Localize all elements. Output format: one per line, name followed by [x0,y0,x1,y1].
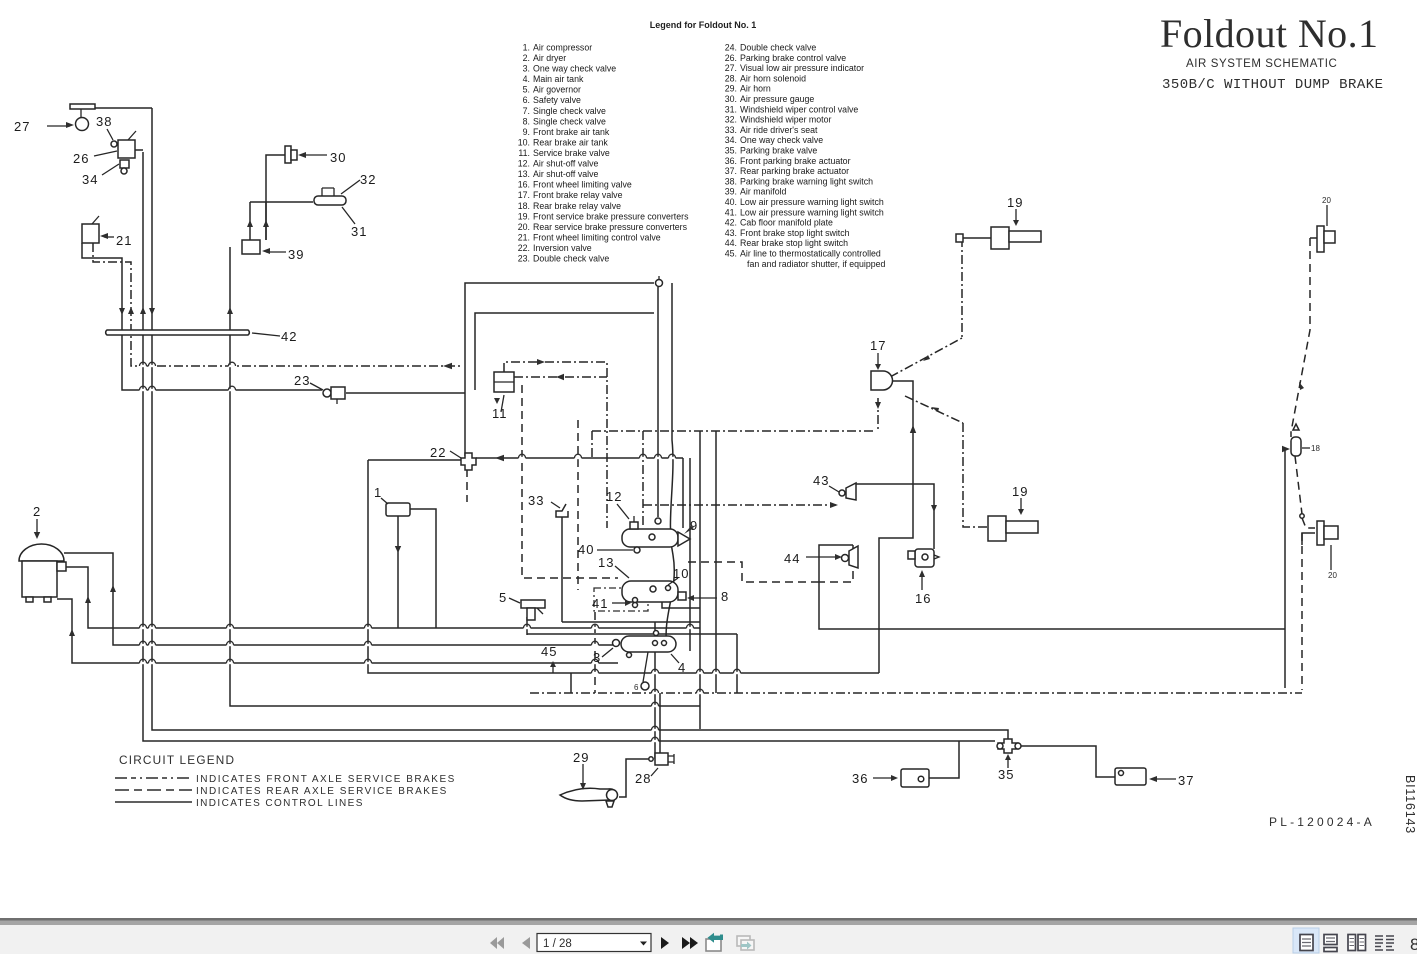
wire top rectangle lower run [475,313,654,390]
wire y484 from switch 43 to limiting valve 16 [856,484,934,549]
junction dot [1300,514,1304,518]
wire top rectangle upper run [465,283,654,456]
svg-text:3: 3 [593,650,601,665]
svg-text:30.: 30. [725,94,737,104]
dashed box around switch 41 [594,588,648,611]
svg-text:42.: 42. [725,218,737,228]
svg-text:34.: 34. [725,135,737,145]
svg-text:Rear brake stop light switch: Rear brake stop light switch [740,238,848,248]
component 29 air horn [560,788,616,801]
wire bus L8 from valve 26 riser down and right to parking brake valve [143,152,995,741]
dash-dot front axle line y431 [592,430,876,432]
legend sample line control [115,801,192,803]
dashed riser x522 and link to rear tank [522,385,618,578]
component 36 front parking brake actuator [901,769,929,787]
svg-text:36: 36 [852,771,868,786]
svg-text:26.: 26. [725,53,737,63]
svg-text:20.: 20. [518,222,530,232]
svg-text:Low air pressure warning light: Low air pressure warning light switch [740,207,884,217]
svg-text:Air line to thermostatically c: Air line to thermostatically controlled [740,249,881,259]
svg-text:31.: 31. [725,104,737,114]
svg-text:Air ride driver's seat: Air ride driver's seat [740,125,818,135]
svg-text:Front service brake pressure c: Front service brake pressure converters [533,211,689,221]
svg-text:fan and radiator shutter, if e: fan and radiator shutter, if equipped [747,259,886,269]
wire stub from top valve down [657,287,659,517]
svg-text:33.: 33. [725,125,737,135]
wire converter 20 upper stub [1310,237,1317,239]
wire drop into main air tank [654,622,656,637]
svg-text:Front brake air tank: Front brake air tank [533,127,610,137]
legend sample line rear axle [115,789,192,791]
svg-text:Air manifold: Air manifold [740,187,787,197]
svg-text:INDICATES CONTROL LINES: INDICATES CONTROL LINES [196,798,364,809]
svg-text:7.: 7. [523,106,530,116]
svg-text:22.: 22. [518,243,530,253]
svg-text:30: 30 [330,150,346,165]
svg-text:Parking brake control valve: Parking brake control valve [740,53,846,63]
svg-text:10.: 10. [518,137,530,147]
dash-dot drop x592 [591,431,593,458]
svg-text:23.: 23. [518,254,530,264]
svg-text:1.: 1. [523,43,530,53]
svg-text:Air governor: Air governor [533,85,581,95]
wire inversion valve left feed [368,459,461,461]
wire horn to solenoid [619,759,651,797]
svg-text:16: 16 [915,591,931,606]
component 23 double check valve [323,389,331,397]
svg-text:6.: 6. [523,95,530,105]
svg-text:9.: 9. [523,127,530,137]
svg-text:12: 12 [606,489,622,504]
svg-text:Legend for Foldout No. 1: Legend for Foldout No. 1 [650,20,757,30]
svg-text:PL-120024-A: PL-120024-A [1269,815,1375,829]
svg-text:39.: 39. [725,187,737,197]
top small valve on rectangle [656,280,663,287]
wire rear relay riser x1285 [1284,450,1286,688]
svg-text:33: 33 [528,493,544,508]
svg-text:Single check valve: Single check valve [533,106,606,116]
wire loop right of tanks [819,582,1285,629]
svg-text:Air dryer: Air dryer [533,53,566,63]
wire bus L1 control line from air dryer to right side [66,567,700,628]
wire bus L7 from valve 27 riser down and right to parking brake valve [152,108,1008,740]
svg-text:18.: 18. [518,201,530,211]
component 5 air governor [521,600,545,608]
svg-text:37: 37 [1178,773,1194,788]
svg-text:Air horn: Air horn [740,84,771,94]
dash-dot riser x963 to converter 19 lower [963,423,988,527]
component 34 one way check valve [120,160,129,168]
svg-text:INDICATES REAR AXLE SERVICE BR: INDICATES REAR AXLE SERVICE BRAKES [196,786,448,797]
dashed link valve 18 to converter 20 lower [1295,456,1315,528]
component 11 service brake valve [494,372,514,392]
wire compressor bottom drop [397,516,399,628]
svg-text:Windshield wiper motor: Windshield wiper motor [740,115,831,125]
switch 44 enclosure [819,545,853,582]
wire converter 20 lower link [1302,533,1315,545]
svg-text:One way check valve: One way check valve [533,64,616,74]
svg-text:Rear brake air tank: Rear brake air tank [533,137,608,147]
svg-text:Air shut-off valve: Air shut-off valve [533,159,598,169]
svg-text:28: 28 [635,771,651,786]
svg-text:19.: 19. [518,211,530,221]
svg-text:8.: 8. [523,116,530,126]
wire bus L4 from inversion valve drop to mid cluster [368,460,879,673]
component 18 rear brake relay valve [1291,437,1301,456]
dashed bus control y693 [530,692,1302,694]
svg-text:9: 9 [690,518,698,533]
svg-text:Front brake relay valve: Front brake relay valve [533,190,623,200]
svg-text:18: 18 [1311,444,1320,453]
wire riser right ladder x716 [715,431,717,693]
toolbar separator [0,918,1417,921]
component 37 rear parking brake actuator [1115,768,1146,785]
component 42 cab floor manifold plate [106,330,250,335]
svg-text:Front parking brake actuator: Front parking brake actuator [740,156,851,166]
dash-dot return to service brake valve [514,376,607,378]
svg-text:39: 39 [288,247,304,262]
svg-text:Rear brake relay valve: Rear brake relay valve [533,201,621,211]
wire seat 33 drop [561,517,563,622]
svg-text:4.: 4. [523,74,530,84]
svg-text:8: 8 [721,589,729,604]
wire link seat to main air tank [562,621,700,623]
svg-text:21: 21 [116,233,132,248]
wire actuator 36 link [929,741,959,778]
svg-text:2.: 2. [523,53,530,63]
svg-text:35: 35 [998,767,1014,782]
wire riser x690 [689,458,691,651]
svg-text:Air compressor: Air compressor [533,43,592,53]
wire air gauge 30 feed [266,155,285,240]
component 20 rear service brake pressure converter lower [1317,521,1324,545]
wire bus L2 from air dryer top port to check valve 3 [64,553,614,645]
component 3 one way check valve and 4 main air tank [621,636,676,652]
wire front wheel limiting control valve 21 solid path [82,243,322,390]
svg-text:42: 42 [281,329,297,344]
svg-text:5.: 5. [523,85,530,95]
wire governor drop [526,617,528,635]
toolbar background [0,925,1417,954]
svg-text:11.: 11. [518,148,530,158]
svg-text:40: 40 [578,542,594,557]
svg-text:23: 23 [294,373,310,388]
svg-text:20: 20 [1322,196,1331,205]
svg-text:34: 34 [82,172,98,187]
svg-text:Front wheel limiting control v: Front wheel limiting control valve [533,232,661,242]
dashed drop x595 below switch 41 [594,612,596,693]
svg-text:41: 41 [592,596,608,611]
svg-text:Main air tank: Main air tank [533,74,584,84]
wire link to wiper control 31 [250,201,313,203]
svg-text:Air shut-off valve: Air shut-off valve [533,169,598,179]
svg-text:10: 10 [673,566,689,581]
dashed riser x1302 to dashed bus [1301,533,1303,690]
svg-text:38: 38 [96,114,112,129]
component 2 air dryer [19,544,64,561]
svg-text:Cab floor manifold plate: Cab floor manifold plate [740,218,833,228]
svg-text:41.: 41. [725,207,737,217]
wire hop bumps [140,362,741,742]
svg-text:19: 19 [1012,484,1028,499]
toolbar page layout icons right [1293,928,1319,953]
component 27 visual low air pressure indicator [70,104,95,109]
svg-text:Rear parking brake actuator: Rear parking brake actuator [740,166,849,176]
svg-text:Service brake valve: Service brake valve [533,148,610,158]
toolbar snapshot icons [706,939,721,951]
dashed drop from converter 20 upper [1291,238,1310,437]
wire bus y635 [527,633,737,635]
svg-text:27.: 27. [725,63,737,73]
component 31 32 windshield wiper motor and control valve [314,196,346,205]
wire drop from L4 to dashed bus [570,673,572,693]
svg-text:Air horn solenoid: Air horn solenoid [740,73,806,83]
svg-text:17: 17 [870,338,886,353]
wire bus L5 from air manifold 39 down and right [230,247,700,706]
svg-text:26: 26 [73,151,89,166]
component 1 air compressor [386,503,410,516]
component 30 air pressure gauge [285,146,291,163]
wire manifold 39 riser a [249,202,251,240]
svg-text:35.: 35. [725,146,737,156]
svg-text:1: 1 [374,485,382,500]
dashed link tank 10 to switch 44 [688,562,819,582]
component 21 front wheel limiting control valve [82,224,99,243]
wire long curved drop from top valve through tanks [666,283,674,648]
wire from double check valve 23 to inversion riser [346,392,465,394]
svg-text:One way check valve: One way check valve [740,135,823,145]
wire valve 27 top run [88,107,152,109]
wire horn solenoid to dashed bus [659,693,661,753]
svg-text:13: 13 [598,555,614,570]
component 35 parking brake valve [998,739,1018,753]
svg-text:16.: 16. [518,180,530,190]
svg-text:17.: 17. [518,190,530,200]
svg-text:38.: 38. [725,176,737,186]
dash-dot riser x962 [961,238,963,338]
wire service line y458 from inversion valve to tank riser [476,457,683,459]
svg-text:Safety valve: Safety valve [533,95,581,105]
component 16 front wheel limiting valve [915,549,934,567]
svg-text:44: 44 [784,551,800,566]
wire bus L3 from air dryer bottom to mid cluster [57,599,618,663]
svg-text:Single check valve: Single check valve [533,116,606,126]
dashed drop below inversion valve [466,469,468,502]
port into front brake air tank [655,518,661,524]
svg-text:27: 27 [14,119,30,134]
component 17 front brake relay valve [871,371,893,390]
svg-text:24.: 24. [725,43,737,53]
svg-text:Rear service brake pressure co: Rear service brake pressure converters [533,222,688,232]
svg-text:INDICATES FRONT AXLE SERVICE B: INDICATES FRONT AXLE SERVICE BRAKES [196,774,456,785]
svg-text:6: 6 [634,683,639,692]
svg-text:Windshield wiper control valve: Windshield wiper control valve [740,104,858,114]
component 10 rear brake air tank [622,581,678,602]
wire stub y608 [662,602,700,608]
svg-text:Low air pressure warning light: Low air pressure warning light switch [740,197,884,207]
svg-text:21.: 21. [518,232,530,242]
wire converter 19 upper stub [962,237,991,239]
toolbar first page button [490,937,530,949]
toolbar page box [537,934,651,952]
svg-text:20: 20 [1328,571,1337,580]
svg-text:12.: 12. [518,159,530,169]
component 26 parking brake control valve [118,140,135,158]
svg-text:Inversion valve: Inversion valve [533,243,592,253]
svg-text:4: 4 [678,660,686,675]
dash-dot line y505 to stop light switch 43 [643,504,836,506]
svg-text:Double check valve: Double check valve [740,43,816,53]
component 19 front service brake pressure converter upper [991,227,1009,249]
wire riser right ladder x697 [699,431,701,729]
component 6 safety valve [643,652,648,682]
dash-dot drop x643 to front brake air tank [642,431,644,528]
svg-text:36.: 36. [725,156,737,166]
svg-text:45: 45 [541,644,557,659]
dash-dot diagonal relay 17 to converter 19 upper [890,338,962,377]
svg-text:Foldout No.1: Foldout No.1 [1160,11,1378,56]
svg-text:5: 5 [499,590,507,605]
svg-text:Parking brake warning light sw: Parking brake warning light switch [740,176,873,186]
wire riser x737 [736,634,738,693]
component 19 front service brake pressure converter lower [988,516,1006,541]
svg-text:2: 2 [33,504,41,519]
dashed riser x578 [577,420,579,590]
svg-text:Front wheel limiting valve: Front wheel limiting valve [533,180,632,190]
legend sample line front axle [115,777,192,779]
svg-text:29: 29 [573,750,589,765]
wire valve 26 link [135,149,143,151]
arrows on risers [119,308,125,315]
wire parking brake valve 35 to actuator 37 [1019,746,1115,777]
svg-text:Visual low air pressure indica: Visual low air pressure indicator [740,63,864,73]
svg-text:44.: 44. [725,238,737,248]
svg-text:45.: 45. [725,249,737,259]
wire front relay 17 drop network [879,381,913,673]
svg-text:40.: 40. [725,197,737,207]
svg-text:CIRCUIT LEGEND: CIRCUIT LEGEND [119,753,235,767]
component 39 air manifold [242,240,260,254]
wire compressor outlet loop [410,509,436,628]
svg-text:BI116143: BI116143 [1403,775,1417,834]
svg-text:AIR SYSTEM SCHEMATIC: AIR SYSTEM SCHEMATIC [1186,58,1338,70]
svg-text:8: 8 [1410,935,1417,954]
component 22 inversion valve [461,453,476,470]
component 20 rear service brake pressure converter upper [1317,226,1324,252]
component 44 rear brake stop light switch [842,555,849,562]
svg-text:22: 22 [430,445,446,460]
svg-text:Front brake stop light switch: Front brake stop light switch [740,228,850,238]
svg-text:11: 11 [492,406,508,421]
svg-text:19: 19 [1007,195,1023,210]
toolbar next buttons [661,937,698,949]
dash-dot riser to relay 17 [877,398,879,431]
wire riser from main air tank to horn solenoid branch [654,652,656,759]
component 28 air horn solenoid [655,753,668,765]
svg-text:28.: 28. [725,73,737,83]
svg-text:29.: 29. [725,84,737,94]
component 43 front brake stop light switch [839,490,845,496]
component 33 air ride seat [556,504,568,517]
svg-text:Double check valve: Double check valve [533,254,609,264]
svg-text:37.: 37. [725,166,737,176]
svg-text:43: 43 [813,473,829,488]
dash-dot diagonal relay 17 to lower riser [905,396,963,423]
svg-text:32.: 32. [725,115,737,125]
wire riser x683 to front brake air tank [682,458,684,528]
svg-text:350B/C WITHOUT DUMP BRAKE: 350B/C WITHOUT DUMP BRAKE [1162,77,1383,93]
svg-text:32: 32 [360,172,376,187]
dash-dot rect around service brake valve 11 top [504,362,607,528]
dash-dot line from valve 21 to inversion valve [93,243,462,366]
svg-text:3.: 3. [523,64,530,74]
svg-text:Parking brake valve: Parking brake valve [740,146,817,156]
svg-text:31: 31 [351,224,367,239]
svg-text:Air pressure gauge: Air pressure gauge [740,94,814,104]
svg-text:1 / 28: 1 / 28 [543,938,572,950]
svg-text:13.: 13. [518,169,530,179]
component 9 front brake air tank [622,529,678,547]
svg-text:43.: 43. [725,228,737,238]
